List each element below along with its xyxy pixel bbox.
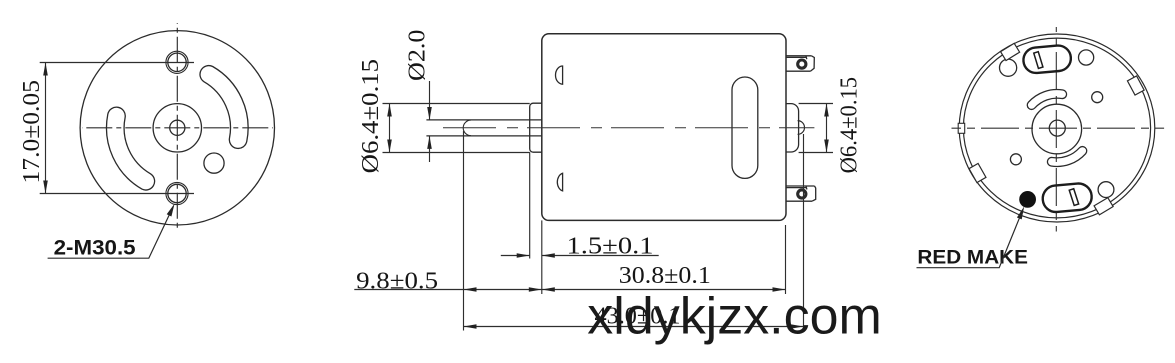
svg-text:9.8±0.5: 9.8±0.5: [356, 269, 438, 295]
middle view centerline: [443, 127, 814, 129]
back arc slot bottom-right: [1047, 147, 1086, 167]
extension vertical body left: [541, 220, 543, 294]
svg-text:Ø2.0: Ø2.0: [405, 29, 431, 81]
bushing dia extension lines: [383, 103, 530, 105]
svg-text:17.0±0.05: 17.0±0.05: [19, 80, 45, 184]
motor body: [542, 34, 786, 221]
extension vertical terminal: [803, 134, 805, 331]
left view: motor front face: [80, 31, 274, 225]
small vent hole right-bottom: [204, 153, 224, 173]
vent D-slot upper: [555, 66, 562, 84]
extension vertical at bearing cap: [463, 131, 465, 331]
dim line 43.0: [464, 326, 804, 328]
bottom terminal bar: [1069, 189, 1078, 206]
leader arrow to bottom hole: [167, 204, 175, 217]
hole top-right: [1079, 50, 1094, 65]
svg-text:30.8±0.1: 30.8±0.1: [619, 263, 711, 289]
svg-text:RED MAKE: RED MAKE: [917, 247, 1028, 269]
middle view: motor side: [542, 34, 786, 221]
rear shaft end bump: [798, 121, 805, 135]
extension line bottom hole: [40, 193, 194, 195]
right view centerlines: [952, 127, 1165, 129]
motor front outer circle: [80, 31, 274, 225]
back inner ring: [963, 38, 1150, 218]
ring tabs: [1001, 43, 1020, 60]
extension vertical hub left: [529, 152, 531, 258]
arrows middle view: [387, 104, 392, 117]
left edge bump: [958, 123, 965, 133]
back outer ring: [959, 34, 1155, 222]
dia6.4 left dim line: [389, 104, 391, 153]
svg-text:xldykjzx.com: xldykjzx.com: [587, 288, 882, 346]
RED MAKE leader: [917, 212, 1022, 268]
front hub/bushing flange: [530, 103, 542, 152]
svg-text:1.5±0.1: 1.5±0.1: [567, 234, 654, 260]
center shaft hole: [170, 120, 185, 135]
top terminal hole: [798, 60, 806, 68]
dia6.4 right extension lines: [799, 103, 833, 105]
top mounting hole inner circle: [168, 53, 186, 71]
stadium vent slot: [732, 77, 758, 178]
hole bottom-right: [1098, 182, 1114, 198]
top terminal stadium: [1022, 44, 1072, 74]
svg-text:Ø6.4±0.15: Ø6.4±0.15: [836, 77, 862, 174]
dim line 9.8 and 30.8: [354, 289, 785, 291]
bottom terminal: [786, 186, 816, 201]
back center boss: [1032, 104, 1082, 154]
center boss circle: [153, 104, 201, 152]
dim line 1.5 left tail: [501, 255, 530, 257]
dim arrows 17.0: [43, 63, 48, 76]
extension line top hole: [40, 62, 194, 64]
dimension line 17.0: [45, 63, 47, 194]
dia2.0 dim line upper: [429, 81, 431, 120]
bottom terminal stadium: [1042, 182, 1093, 213]
thin extension and dimension lines middle view: [354, 81, 833, 331]
vent D-slot lower: [557, 173, 562, 191]
leader underline 2-M30.5: [48, 207, 174, 259]
dia6.4 right dim line: [826, 104, 828, 153]
bottom mounting hole outer thread circle: [166, 182, 188, 204]
right view: motor back: [959, 34, 1155, 222]
arc slot right: [200, 66, 248, 149]
dim line 1.5 right part: [542, 255, 659, 257]
extension vertical body right: [785, 225, 787, 294]
dia2.0 dim line lower: [429, 136, 431, 162]
svg-text:Ø6.4±0.15: Ø6.4±0.15: [358, 59, 384, 174]
arc slot left: [107, 107, 155, 190]
top terminal: [786, 56, 814, 71]
bearing cap arc on shaft: [463, 120, 471, 136]
red mark dot: [1019, 191, 1036, 208]
svg-text:2-M30.5: 2-M30.5: [54, 236, 136, 260]
hole top-left: [1000, 59, 1017, 76]
rear boss: [786, 104, 799, 152]
back center hole: [1049, 120, 1065, 136]
shaft bottom line: [426, 135, 541, 137]
small hole right: [1092, 92, 1103, 103]
shaft top line: [426, 119, 541, 121]
back arc slot top-left: [1027, 90, 1066, 110]
top terminal bar: [1034, 52, 1043, 69]
small hole left: [1010, 154, 1021, 165]
bottom terminal hole: [798, 190, 806, 198]
top mounting hole outer thread circle: [166, 51, 188, 73]
bottom mounting hole inner circle: [168, 184, 186, 202]
left view centerlines: [40, 23, 273, 230]
